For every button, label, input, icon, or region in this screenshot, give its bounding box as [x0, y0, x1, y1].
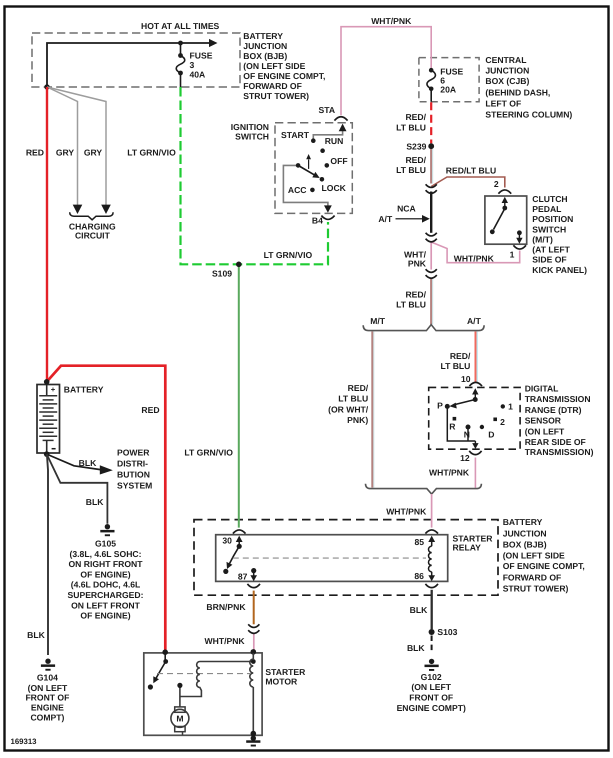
svg-text:N: N: [464, 430, 470, 440]
svg-text:RED/: RED/: [405, 112, 426, 122]
svg-text:GRY: GRY: [56, 148, 75, 158]
svg-text:ENGINE: ENGINE: [31, 702, 64, 712]
svg-text:FRONT OF: FRONT OF: [25, 692, 69, 702]
svg-text:SWITCH: SWITCH: [235, 131, 269, 141]
svg-text:REAR SIDE OF: REAR SIDE OF: [525, 437, 586, 447]
svg-text:ENGINE COMPT): ENGINE COMPT): [397, 703, 466, 713]
svg-text:BLK: BLK: [27, 630, 45, 640]
svg-text:WHT/PNK: WHT/PNK: [205, 636, 246, 646]
svg-text:OF ENGINE): OF ENGINE): [80, 569, 130, 579]
svg-text:MOTOR: MOTOR: [265, 677, 298, 687]
svg-text:FORWARD OF: FORWARD OF: [503, 572, 562, 582]
svg-text:RED/: RED/: [405, 155, 426, 165]
svg-text:PNK): PNK): [347, 415, 368, 425]
svg-text:HOT AT ALL TIMES: HOT AT ALL TIMES: [141, 21, 220, 31]
svg-text:RUN: RUN: [325, 136, 344, 146]
svg-text:BLK: BLK: [79, 458, 97, 468]
svg-text:WHT/PNK: WHT/PNK: [386, 507, 427, 517]
svg-text:SUPERCHARGED:: SUPERCHARGED:: [68, 590, 144, 600]
svg-text:STA: STA: [319, 105, 336, 115]
svg-text:FORWARD OF: FORWARD OF: [243, 81, 302, 91]
svg-text:RED/: RED/: [450, 351, 471, 361]
svg-text:(OR WHT/: (OR WHT/: [328, 404, 369, 414]
svg-text:OF ENGINE COMPT,: OF ENGINE COMPT,: [243, 71, 325, 81]
svg-text:BOX (BJB): BOX (BJB): [243, 51, 287, 61]
svg-text:OF ENGINE COMPT,: OF ENGINE COMPT,: [503, 561, 585, 571]
svg-text:(ON LEFT SIDE: (ON LEFT SIDE: [243, 61, 305, 71]
svg-text:R: R: [449, 422, 456, 432]
svg-text:RELAY: RELAY: [453, 542, 482, 552]
svg-text:3: 3: [190, 60, 195, 70]
svg-text:G104: G104: [37, 672, 58, 682]
svg-text:2: 2: [500, 417, 505, 427]
svg-text:86: 86: [414, 571, 424, 581]
svg-text:1: 1: [510, 250, 515, 260]
svg-text:(ON LEFT: (ON LEFT: [411, 682, 451, 692]
svg-text:(ON LEFT: (ON LEFT: [525, 426, 565, 436]
svg-text:ON RIGHT FRONT: ON RIGHT FRONT: [69, 559, 144, 569]
svg-text:(AT LEFT: (AT LEFT: [532, 245, 570, 255]
svg-text:STARTER: STARTER: [265, 667, 306, 677]
svg-text:+: +: [51, 385, 56, 394]
svg-text:ON LEFT FRONT: ON LEFT FRONT: [71, 600, 140, 610]
svg-text:RED: RED: [141, 405, 159, 415]
svg-text:(3.8L, 4.6L SOHC:: (3.8L, 4.6L SOHC:: [70, 549, 142, 559]
svg-text:LT BLU: LT BLU: [396, 299, 426, 309]
svg-text:JUNCTION: JUNCTION: [243, 41, 287, 51]
svg-text:CENTRAL: CENTRAL: [485, 55, 526, 65]
svg-text:OFF: OFF: [330, 156, 347, 166]
svg-text:LEFT OF: LEFT OF: [485, 99, 521, 109]
svg-text:TRANSMISSION): TRANSMISSION): [525, 447, 594, 457]
svg-text:RED/LT BLU: RED/LT BLU: [446, 166, 496, 176]
svg-text:SWITCH: SWITCH: [532, 224, 566, 234]
svg-text:1: 1: [508, 402, 513, 412]
svg-text:RANGE (DTR): RANGE (DTR): [525, 405, 582, 415]
svg-text:FRONT OF: FRONT OF: [409, 692, 453, 702]
svg-text:STEERING COLUMN): STEERING COLUMN): [485, 110, 572, 120]
svg-text:BUTION: BUTION: [117, 470, 150, 480]
svg-text:TRANSMISSION: TRANSMISSION: [525, 394, 591, 404]
svg-text:S239: S239: [406, 141, 426, 151]
svg-text:(M/T): (M/T): [532, 234, 553, 244]
svg-text:20A: 20A: [440, 84, 456, 94]
svg-text:JUNCTION: JUNCTION: [485, 66, 529, 76]
svg-text:ACC: ACC: [288, 185, 307, 195]
svg-text:10: 10: [461, 374, 471, 384]
svg-text:GRY: GRY: [84, 148, 103, 158]
svg-text:(4.6L DOHC, 4.6L: (4.6L DOHC, 4.6L: [71, 580, 141, 590]
svg-text:STRUT TOWER): STRUT TOWER): [243, 91, 309, 101]
svg-text:RED: RED: [26, 148, 44, 158]
svg-text:A/T: A/T: [467, 316, 482, 326]
svg-text:COMPT): COMPT): [30, 712, 64, 722]
svg-text:G105: G105: [95, 539, 116, 549]
svg-text:KICK PANEL): KICK PANEL): [532, 265, 587, 275]
svg-text:30: 30: [222, 536, 232, 546]
svg-text:M/T: M/T: [370, 316, 386, 326]
svg-text:40A: 40A: [190, 70, 206, 80]
svg-text:S103: S103: [437, 627, 457, 637]
svg-text:NCA: NCA: [397, 203, 416, 213]
svg-text:PNK: PNK: [408, 258, 427, 268]
svg-text:(ON LEFT SIDE: (ON LEFT SIDE: [503, 550, 565, 560]
svg-text:BATTERY: BATTERY: [243, 31, 283, 41]
svg-text:LT GRN/VIO: LT GRN/VIO: [264, 250, 313, 260]
svg-text:DISTRI-: DISTRI-: [117, 458, 148, 468]
svg-text:S109: S109: [212, 269, 232, 279]
svg-text:BLK: BLK: [86, 497, 104, 507]
svg-text:LT BLU: LT BLU: [396, 165, 426, 175]
svg-text:LOCK: LOCK: [322, 183, 347, 193]
svg-text:2: 2: [494, 179, 499, 189]
svg-text:(ON LEFT: (ON LEFT: [28, 683, 68, 693]
svg-text:BOX (CJB): BOX (CJB): [485, 76, 529, 86]
svg-text:B4: B4: [312, 216, 323, 226]
svg-text:WHT/PNK: WHT/PNK: [454, 254, 495, 264]
svg-text:JUNCTION: JUNCTION: [503, 529, 547, 539]
svg-text:LT GRN/VIO: LT GRN/VIO: [184, 447, 233, 457]
svg-text:WHT/PNK: WHT/PNK: [371, 16, 412, 26]
svg-text:LT GRN/VIO: LT GRN/VIO: [127, 147, 176, 157]
svg-text:RED/: RED/: [348, 383, 369, 393]
svg-text:G102: G102: [421, 672, 442, 682]
svg-text:LT BLU: LT BLU: [396, 122, 426, 132]
svg-text:P: P: [437, 400, 443, 410]
svg-text:POSITION: POSITION: [532, 214, 573, 224]
svg-text:BLK: BLK: [407, 643, 425, 653]
svg-text:DIGITAL: DIGITAL: [525, 383, 559, 393]
svg-text:A/T: A/T: [378, 214, 393, 224]
svg-text:START: START: [281, 130, 310, 140]
svg-text:OF ENGINE): OF ENGINE): [80, 611, 130, 621]
svg-text:RED/: RED/: [405, 290, 426, 300]
svg-text:LT BLU: LT BLU: [338, 393, 368, 403]
svg-text:BATTERY: BATTERY: [64, 385, 104, 395]
svg-text:WHT/PNK: WHT/PNK: [429, 468, 470, 478]
svg-text:PEDAL: PEDAL: [532, 204, 561, 214]
svg-text:12: 12: [460, 453, 470, 463]
svg-text:BRN/PNK: BRN/PNK: [206, 602, 246, 612]
svg-text:CIRCUIT: CIRCUIT: [75, 230, 111, 240]
svg-text:169313: 169313: [11, 737, 38, 746]
svg-text:SIDE OF: SIDE OF: [532, 255, 566, 265]
svg-text:FUSE: FUSE: [190, 51, 213, 61]
svg-text:87: 87: [238, 572, 248, 582]
svg-text:SENSOR: SENSOR: [525, 416, 562, 426]
svg-text:M: M: [176, 714, 183, 724]
svg-text:BOX (BJB): BOX (BJB): [503, 540, 547, 550]
svg-text:(BEHIND DASH,: (BEHIND DASH,: [485, 88, 550, 98]
svg-text:CLUTCH: CLUTCH: [532, 194, 567, 204]
svg-text:POWER: POWER: [117, 447, 150, 457]
svg-text:BATTERY: BATTERY: [503, 517, 543, 527]
svg-text:SYSTEM: SYSTEM: [117, 481, 152, 491]
svg-text:LT BLU: LT BLU: [440, 361, 470, 371]
svg-text:85: 85: [415, 537, 425, 547]
svg-text:BLK: BLK: [410, 605, 428, 615]
svg-text:D: D: [488, 430, 494, 440]
svg-text:STRUT TOWER): STRUT TOWER): [503, 583, 569, 593]
